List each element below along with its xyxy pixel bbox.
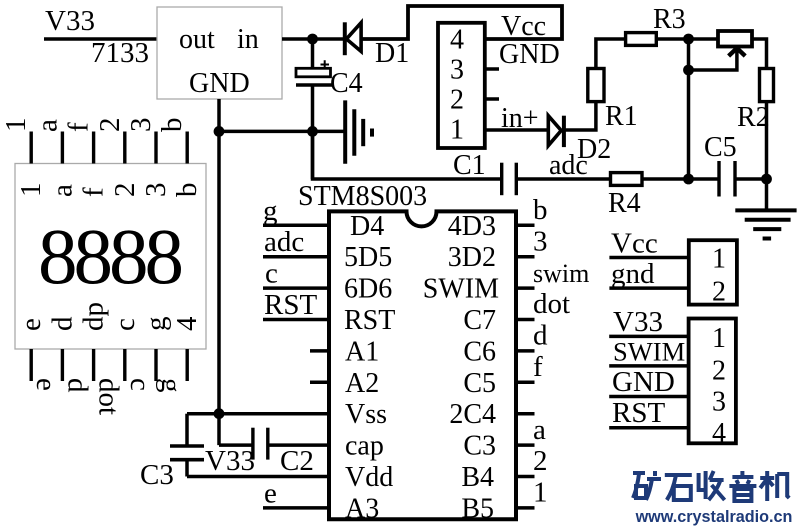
svg-text:C7: C7 <box>463 305 496 336</box>
wire net RST to pin RST <box>263 318 329 322</box>
P1 pin 2 stub <box>485 97 499 101</box>
svg-text:out: out <box>179 24 215 55</box>
svg-text:RST: RST <box>612 397 665 429</box>
svg-text:R3: R3 <box>653 4 686 35</box>
svg-text:3: 3 <box>125 118 157 133</box>
P3 pin 2 wire <box>609 364 688 368</box>
wire R1 top to R3 <box>596 39 626 69</box>
svg-text:Vcc: Vcc <box>501 11 546 42</box>
connector P2 body <box>689 240 737 304</box>
wire Vss row <box>187 412 329 416</box>
connector P1 body <box>438 23 485 148</box>
svg-text:C1: C1 <box>453 150 486 181</box>
connector P3 body <box>689 319 736 444</box>
wire C3 top lead <box>185 414 189 446</box>
display DS1 body <box>15 164 206 350</box>
svg-text:RST: RST <box>344 305 395 336</box>
P2 pin 2 wire <box>609 286 688 290</box>
svg-text:D4: D4 <box>350 211 384 242</box>
ground symbol bottom right <box>735 210 796 238</box>
svg-text:2: 2 <box>712 356 726 387</box>
resistor R3 <box>626 33 657 46</box>
junction node A <box>683 34 694 45</box>
wire Vdd row <box>187 475 329 479</box>
svg-text:www.crystalradio.cn: www.crystalradio.cn <box>635 508 793 526</box>
wire GND rail to C1 <box>313 131 502 179</box>
svg-text:V33: V33 <box>45 5 95 37</box>
svg-text:4: 4 <box>712 418 726 449</box>
resistor R2 <box>760 69 774 102</box>
IC U2 STM8S003 body with notch <box>329 211 516 519</box>
svg-text:SWIM: SWIM <box>613 336 685 366</box>
wire net e to pin A3 <box>263 506 329 510</box>
svg-text:Vss: Vss <box>345 399 387 430</box>
svg-text:f: f <box>63 122 95 132</box>
pin A2 stub <box>310 381 329 385</box>
svg-text:2: 2 <box>94 118 126 133</box>
watermark logo ji <box>760 471 789 501</box>
wire R2 bottom to adc line <box>765 102 769 179</box>
wire node A down to adc line <box>687 39 691 179</box>
svg-text:GND: GND <box>499 39 560 70</box>
junction Vss node <box>214 408 225 419</box>
svg-text:A2: A2 <box>345 368 379 399</box>
wire C5 to ground node <box>735 177 767 181</box>
wire C3 bottom to Vdd row <box>185 460 189 477</box>
svg-text:C2: C2 <box>280 445 314 477</box>
svg-text:3: 3 <box>450 55 464 86</box>
capacitor C4 polarized top plate <box>296 68 331 77</box>
svg-text:D1: D1 <box>375 38 409 69</box>
svg-text:g: g <box>263 195 278 227</box>
IC right pin stubs <box>516 225 535 508</box>
svg-text:2: 2 <box>533 445 548 477</box>
watermark logo kuang <box>633 471 661 500</box>
junction adc node <box>683 174 694 185</box>
svg-text:g: g <box>155 378 187 393</box>
svg-text:8888: 8888 <box>38 214 182 301</box>
svg-text:a: a <box>31 119 63 132</box>
display top outside pin labels <box>0 118 188 133</box>
svg-text:e: e <box>15 318 47 331</box>
svg-text:3: 3 <box>712 387 726 418</box>
svg-text:swim: swim <box>533 259 589 288</box>
watermark logo shou <box>699 471 725 500</box>
junction wiper tap <box>683 65 694 76</box>
resistor R4 <box>611 173 643 186</box>
svg-text:B4: B4 <box>461 462 494 493</box>
svg-text:R1: R1 <box>605 101 638 132</box>
svg-text:dot: dot <box>533 288 570 320</box>
pin A1 stub <box>310 349 329 353</box>
svg-text:1: 1 <box>712 323 726 354</box>
junction C4 GND node <box>307 126 318 137</box>
svg-text:3: 3 <box>533 225 548 257</box>
capacitor C5 <box>719 161 735 197</box>
svg-text:V33: V33 <box>613 306 663 338</box>
svg-text:e: e <box>30 378 62 391</box>
P2 pin 1 wire <box>609 256 688 260</box>
svg-text:g: g <box>140 317 172 332</box>
wire down to ground <box>765 179 769 210</box>
wire net c to pin 6D6 <box>263 286 329 290</box>
capacitor C4 bottom plate <box>296 83 332 87</box>
svg-text:4: 4 <box>450 25 464 56</box>
diode D2 cathode bar <box>562 116 566 147</box>
capacitor C2 <box>253 428 268 460</box>
diode D1 triangle <box>346 23 361 52</box>
wire pot right to R2 <box>753 39 767 69</box>
IC right net labels <box>533 194 589 509</box>
svg-text:Vdd: Vdd <box>345 462 393 493</box>
diode D1 cathode bar <box>343 22 347 55</box>
svg-text:in: in <box>237 24 259 55</box>
P3 pin 4 wire <box>609 426 688 430</box>
wire regulator in to input node <box>282 37 345 41</box>
capacitor C1 <box>502 163 517 196</box>
svg-text:f: f <box>533 351 543 383</box>
svg-text:adc: adc <box>549 150 588 181</box>
svg-text:2: 2 <box>450 85 464 116</box>
P1 pin 3 stub <box>485 67 499 71</box>
svg-text:1: 1 <box>15 183 47 198</box>
capacitor C4 plus sign <box>321 60 330 68</box>
svg-text:dot: dot <box>93 378 125 415</box>
svg-text:5D5: 5D5 <box>344 242 392 273</box>
watermark logo yin <box>729 471 756 501</box>
svg-text:GND: GND <box>612 366 675 398</box>
svg-text:3D2: 3D2 <box>448 242 496 273</box>
svg-text:f: f <box>78 187 110 197</box>
svg-text:C5: C5 <box>463 368 496 399</box>
svg-text:a: a <box>46 184 78 197</box>
wire C1 to R4 <box>516 177 610 181</box>
svg-text:b: b <box>171 183 203 198</box>
capacitor C3 <box>170 446 204 460</box>
wire node to C4 <box>311 39 315 68</box>
svg-text:2C4: 2C4 <box>449 399 496 430</box>
svg-text:in+: in+ <box>501 103 539 134</box>
wire net g to pin D4 <box>263 224 329 228</box>
IC left pin labels <box>344 211 395 525</box>
wire to C2 left plate <box>219 443 253 447</box>
wire C4 to GND rail <box>311 85 315 179</box>
svg-text:C6: C6 <box>463 336 496 367</box>
svg-text:A1: A1 <box>345 336 379 367</box>
svg-text:d: d <box>61 378 93 393</box>
svg-text:GND: GND <box>189 68 250 99</box>
junction GND node <box>214 126 225 137</box>
wire net adc to pin 5D5 <box>263 255 329 259</box>
svg-text:dp: dp <box>78 302 110 331</box>
svg-text:A3: A3 <box>345 493 379 524</box>
svg-text:2: 2 <box>109 183 141 198</box>
svg-text:c: c <box>124 378 156 391</box>
ground symbol rotated <box>345 100 372 163</box>
svg-text:a: a <box>533 414 546 446</box>
svg-text:d: d <box>533 320 548 352</box>
svg-text:7133: 7133 <box>91 37 149 69</box>
svg-text:1: 1 <box>712 243 726 274</box>
svg-text:1: 1 <box>450 115 464 146</box>
svg-text:4: 4 <box>171 316 203 331</box>
junction ground node <box>761 174 772 185</box>
wire D1 to Vcc loop to connector pin 4 <box>361 6 562 39</box>
svg-text:C5: C5 <box>704 132 737 163</box>
wire GND node to ground symbol <box>219 130 344 134</box>
svg-text:2: 2 <box>712 276 726 307</box>
display bottom pin stubs <box>31 349 187 381</box>
svg-text:6D6: 6D6 <box>344 274 392 305</box>
wire R4 to C5 <box>642 177 719 181</box>
svg-text:RST: RST <box>264 289 317 321</box>
svg-text:d: d <box>46 316 78 331</box>
wire D2 to R1 <box>564 102 596 130</box>
svg-text:c: c <box>265 258 278 290</box>
svg-text:cap: cap <box>345 431 384 462</box>
junction input node <box>307 34 318 45</box>
wire R3 to node A <box>656 37 718 41</box>
display top pin stubs <box>31 132 187 164</box>
svg-text:adc: adc <box>264 226 304 258</box>
svg-text:1: 1 <box>0 118 32 133</box>
display bottom outside pin labels <box>30 378 187 415</box>
svg-text:C3: C3 <box>463 431 496 462</box>
diode D2 triangle <box>548 116 561 146</box>
svg-text:C3: C3 <box>140 459 174 491</box>
wire V33 to regulator out <box>44 37 158 41</box>
svg-text:C4: C4 <box>330 68 363 99</box>
svg-text:STM8S003: STM8S003 <box>298 181 427 212</box>
svg-text:4D3: 4D3 <box>448 211 496 242</box>
P3 pin 3 wire <box>609 395 688 399</box>
wire C2 to pin cap <box>268 443 329 447</box>
svg-text:V33: V33 <box>205 445 255 477</box>
P3 pin 1 wire <box>609 335 688 339</box>
potentiometer wiper wire <box>689 49 737 70</box>
potentiometer R2 track <box>718 31 752 47</box>
svg-text:Vcc: Vcc <box>611 228 658 260</box>
svg-text:e: e <box>264 477 277 509</box>
svg-text:c: c <box>109 318 141 331</box>
display inside top pin labels <box>15 183 203 198</box>
display inside bottom pin labels <box>15 302 203 331</box>
resistor R1 <box>588 69 604 102</box>
svg-text:b: b <box>533 194 548 226</box>
svg-text:1: 1 <box>533 477 548 509</box>
svg-text:gnd: gnd <box>611 258 655 290</box>
wire 7133 GND down column <box>217 99 221 445</box>
P1 pin 1 wire <box>485 128 549 132</box>
watermark logo shi <box>665 475 692 500</box>
regulator U1 7133 body <box>157 7 282 99</box>
svg-text:3: 3 <box>140 183 172 198</box>
svg-text:B5: B5 <box>461 493 494 524</box>
svg-text:R4: R4 <box>608 188 641 219</box>
IC right pin labels <box>423 211 499 525</box>
potentiometer wiper arrowhead <box>729 48 746 56</box>
svg-text:b: b <box>156 118 188 133</box>
svg-text:SWIM: SWIM <box>423 274 499 305</box>
